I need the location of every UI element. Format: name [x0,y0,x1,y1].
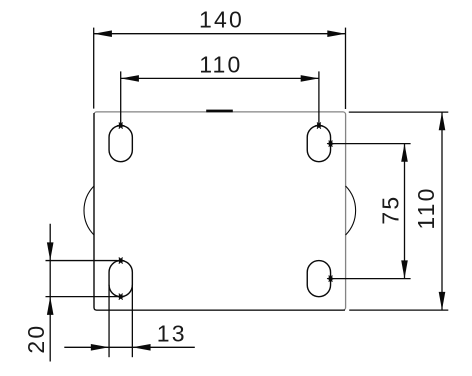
dimension 110 right: arrow bottom [439,292,446,310]
wheel arc right [346,186,356,235]
dimension 20: arrow top (outside, pointing down) [47,242,54,260]
dimension 110 right: dimension line [441,112,443,310]
dimension 20: extension line bottom [46,296,118,298]
dimension 75: extension line top [331,143,411,145]
dimension 110 top: extension line left [120,71,122,125]
svg-text:20: 20 [23,324,49,354]
dimension 75: dimension line [404,144,406,279]
dimension 140: value label [199,7,244,33]
dimension 110 right: arrow top [439,112,446,130]
dimension 110 top: arrow right [301,75,319,82]
slot bottom-left [109,261,132,297]
dimension 140: arrow left [94,30,112,37]
dimension 13: arrow right (outside, pointing left) [132,344,150,351]
slot bottom-right [307,261,330,297]
dimension 13: arrow left (outside, pointing right) [91,344,109,351]
svg-text:13: 13 [157,320,187,346]
dimension 110 right: extension line top [349,111,449,113]
slot top-right star marker top [315,122,322,128]
dimension 140: extension line left [93,28,95,109]
wheel arc left [84,186,94,235]
dimension 110 right: value label (rotated) [413,186,439,229]
dimension 110 top: arrow left [121,75,139,82]
dimension 13: value label [157,320,187,346]
slot bottom-left star marker top [117,257,124,263]
dimension 75: value label (rotated) [377,195,403,225]
slot bottom-left star marker bottom [117,294,124,300]
dimension 140: extension line right [345,28,347,109]
dimension 20: arrow bottom (outside, pointing up) [47,297,54,315]
svg-text:140: 140 [199,7,244,33]
dimension 13: extension line right [131,285,133,357]
dimension 20: value label (rotated) [23,324,49,354]
dimension 13: dimension line [64,346,195,348]
plate outline (grey rounded rectangle, top view) [94,112,346,310]
dimension 20: dimension line [49,224,51,362]
slot bottom-right star marker right [327,275,334,281]
dimension 75: arrow bottom [401,260,408,278]
dimension 110 top: extension line right [318,71,320,125]
plate left and bottom edges (black) [94,113,345,310]
dimension 20: extension line top [46,260,118,262]
dimension 75: extension line bottom [331,278,411,280]
svg-text:75: 75 [377,195,403,225]
dimension 13: extension line left [108,285,110,357]
dimension 140: dimension line [94,33,346,35]
dimension 110 right: extension line bottom [349,309,448,311]
dimension 75: arrow top [401,144,408,162]
top hidden boss edge (thick black segment on top edge) [206,110,233,113]
svg-text:110: 110 [199,52,242,78]
slot top-right [307,126,330,162]
dimension 110 top: value label [199,52,242,78]
slot top-left [109,126,132,162]
slot top-right star marker right [327,140,334,146]
svg-text:110: 110 [413,186,439,229]
dimension 110 top: dimension line [121,77,319,79]
slot top-left star marker [117,122,124,128]
dimension 140: arrow right [327,30,345,37]
